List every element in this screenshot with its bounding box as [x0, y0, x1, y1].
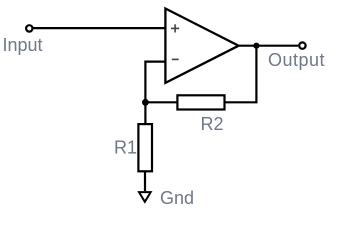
wire: R1 to ground [144, 171, 146, 191]
svg-text:Input: Input [3, 35, 43, 55]
ground [139, 192, 151, 202]
resistor R2 body [177, 95, 224, 109]
wire: feedback node to R2 [145, 101, 178, 103]
node: feedback junction [142, 99, 149, 106]
wire: feedback node down to R1 [144, 102, 146, 124]
input terminal [26, 25, 32, 31]
op-amp [165, 9, 238, 83]
svg-text:Output: Output [268, 50, 325, 70]
svg-text:R1: R1 [114, 138, 137, 158]
wire: input terminal to op-amp non-inverting input [33, 27, 166, 29]
resistor R1 body [138, 124, 152, 171]
output terminal [299, 42, 305, 48]
svg-text:R2: R2 [201, 114, 224, 134]
svg-text:Gnd: Gnd [160, 188, 194, 208]
op-amp - pin marker [172, 58, 179, 60]
op-amp + pin marker [171, 24, 179, 32]
wire: op-amp inverting input to feedback node [145, 62, 166, 103]
wire: output branch down to R2 [225, 46, 257, 103]
node: output junction [253, 43, 259, 49]
wire: op-amp output to output terminal [237, 45, 298, 47]
